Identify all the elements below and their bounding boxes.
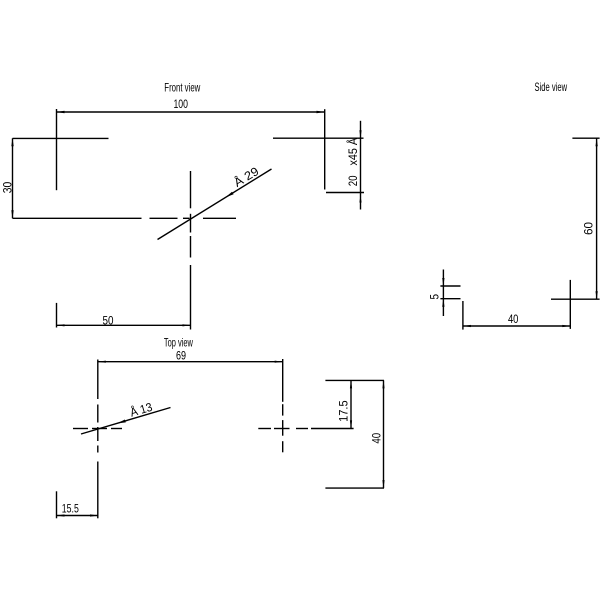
svg-text:15.5: 15.5 xyxy=(62,501,79,515)
dimension 50 left arrow xyxy=(57,324,65,326)
dimension 20 bottom arrow (outside) xyxy=(359,196,361,203)
dimension 5 bottom arrow (outside) xyxy=(442,299,444,307)
svg-text:Front view: Front view xyxy=(164,81,200,95)
svg-text:5: 5 xyxy=(428,294,442,300)
right centerline seg 3 xyxy=(282,420,284,436)
centerline vertical seg 3 xyxy=(190,236,192,258)
dimension 40 left arrow (side) xyxy=(463,325,471,327)
dimension 40 top arrow (top) xyxy=(382,380,384,388)
left cross horizontal dash 3 xyxy=(111,428,122,430)
right cross horizontal dash 2 xyxy=(274,428,290,430)
svg-text:69: 69 xyxy=(176,348,186,362)
dimension 40 line (top) xyxy=(383,380,385,488)
centerline horizontal dash 2 xyxy=(183,217,190,219)
dimension 69 right arrow xyxy=(275,361,283,363)
front bottom edge xyxy=(13,217,142,219)
dimension 17.5 line xyxy=(350,380,352,428)
svg-text:x45 Å: x45 Å xyxy=(345,138,360,166)
dimension 30 top arrow xyxy=(11,138,13,146)
right cross horizontal dash 4 / extension (17.5) xyxy=(311,428,354,430)
svg-text:60: 60 xyxy=(582,222,596,235)
dimension 15.5 right arrow xyxy=(90,514,98,516)
leader arrow hole 13 xyxy=(117,420,126,424)
dimension 40 right arrow (side) xyxy=(562,325,570,327)
left centerline seg 5 xyxy=(97,462,99,519)
dimension 40 line (side) xyxy=(463,325,570,327)
dimension 60 line xyxy=(596,138,598,299)
side tick lower (5 dim) xyxy=(440,298,460,300)
dimension 17.5 bottom arrow xyxy=(350,420,352,428)
front top-left edge xyxy=(13,137,109,139)
leader arrow hole 29 xyxy=(226,192,234,198)
top view upper edge line xyxy=(325,379,384,381)
svg-text:20: 20 xyxy=(346,175,360,186)
centerline vertical seg 1 xyxy=(190,171,192,208)
svg-text:17.5: 17.5 xyxy=(337,400,351,422)
dimension 69 line xyxy=(98,361,283,363)
dimension 69 left arrow xyxy=(98,361,106,363)
svg-text:40: 40 xyxy=(369,433,383,444)
dimension 100 right arrow xyxy=(317,111,325,113)
right cross horizontal dash 1 xyxy=(258,428,271,430)
left cross horizontal dash 2 xyxy=(92,428,107,430)
dimension 30 line xyxy=(12,138,14,218)
svg-text:30: 30 xyxy=(1,181,15,193)
extension line left (50) xyxy=(56,303,58,328)
side bottom-right edge xyxy=(551,298,600,300)
leader line hole 13 xyxy=(81,408,171,435)
front top-right edge xyxy=(273,137,364,139)
extension line left (100) xyxy=(56,109,58,190)
dimension 15.5 line xyxy=(57,515,99,517)
svg-text:Top view: Top view xyxy=(164,335,193,349)
dimension 100 line xyxy=(57,111,325,113)
top view lower edge line xyxy=(325,487,384,489)
centerline vertical seg 4 / extension to 50 dim xyxy=(190,265,192,330)
side tick upper (5 dim) xyxy=(440,285,460,287)
side left vertical edge xyxy=(462,301,464,330)
extension line left (15.5) xyxy=(56,491,58,518)
dimension 30 bottom arrow xyxy=(11,210,13,218)
centerline horizontal dash 1 xyxy=(150,217,178,219)
dimension 60 top arrow xyxy=(596,138,598,146)
right cross horizontal dash 3 xyxy=(296,428,308,430)
dimension 20 top arrow (outside) xyxy=(359,130,361,138)
svg-text:Side view: Side view xyxy=(535,80,568,94)
left centerline seg 2 xyxy=(97,405,99,423)
dimension 50 right arrow xyxy=(183,324,191,326)
dimension 60 bottom arrow xyxy=(596,291,598,299)
right centerline seg 2 xyxy=(282,404,284,415)
dimension 17.5 top arrow xyxy=(350,380,352,388)
dimension 50 line xyxy=(57,324,191,326)
centerline horizontal dash 3 xyxy=(203,217,236,219)
extension line right (100) xyxy=(324,109,326,189)
dimension 5 top arrow (outside) xyxy=(442,278,444,286)
svg-text:40: 40 xyxy=(508,312,519,326)
left centerline seg 1 xyxy=(97,360,99,400)
left cross horizontal dash 1 xyxy=(73,428,88,430)
dimension 40 bottom arrow (top) xyxy=(382,480,384,488)
dimension 15.5 left arrow xyxy=(57,514,65,516)
svg-text:100: 100 xyxy=(173,97,188,111)
side right vertical edge xyxy=(569,280,571,329)
side top edge xyxy=(572,137,599,139)
centerline vertical seg 2 xyxy=(190,214,192,233)
right centerline seg 4 xyxy=(282,441,284,452)
dimension 20 line xyxy=(360,121,362,210)
leader line hole 29 xyxy=(158,169,272,240)
left centerline seg 3 xyxy=(97,427,99,441)
right centerline seg 1 xyxy=(282,359,284,402)
left centerline seg 4 xyxy=(97,446,99,453)
dimension 5 line xyxy=(442,270,444,317)
front right bottom tick xyxy=(326,192,364,194)
dimension 100 left arrow xyxy=(57,111,65,113)
